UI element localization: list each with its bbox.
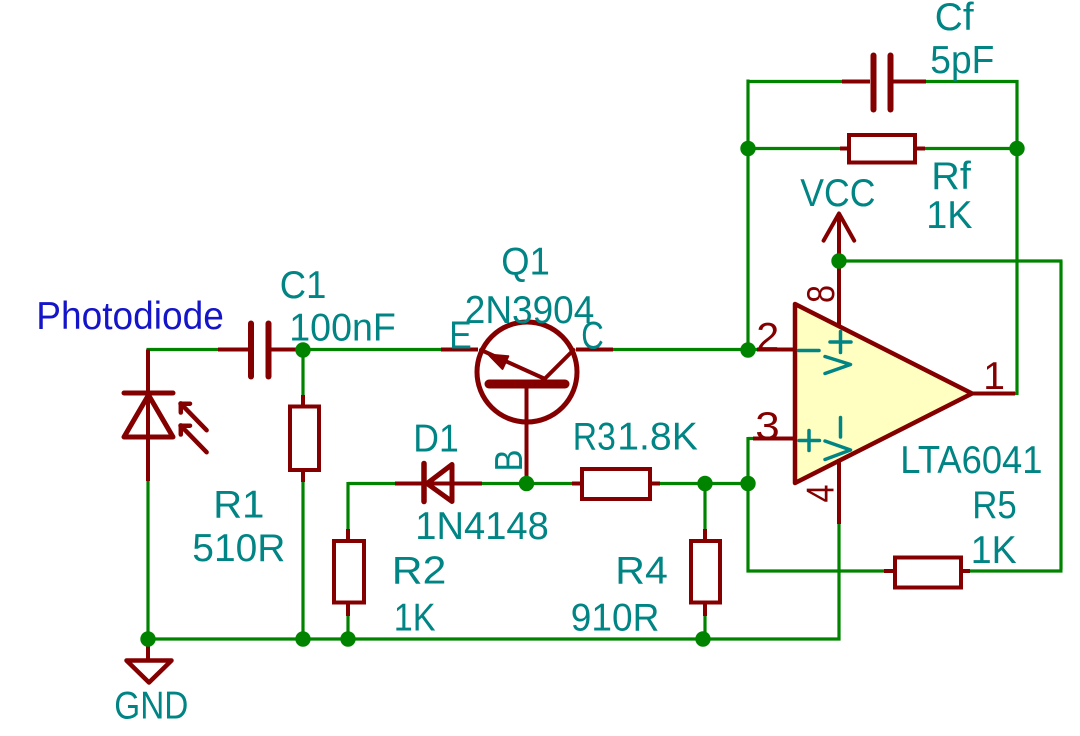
capacitor Cf left pin [842,80,870,84]
svg-text:4: 4 [799,485,842,503]
ground symbol [146,639,150,661]
resistor R2 body [334,541,364,603]
resistor R5 body [895,558,961,588]
op-amp V- minus mark [839,418,843,438]
transistor Q1 base pin [525,384,529,484]
svg-text:VCC: VCC [800,172,875,215]
svg-text:3: 3 [755,405,780,448]
wire op-amp pin4 to ground rail [837,524,840,641]
op-amp pin 4 stub [837,459,841,524]
capacitor Cf right pin [894,80,927,84]
svg-text:LTA6041: LTA6041 [900,439,1042,482]
wire pin3 node vertical [746,437,749,573]
op-amp pin 3 stub [753,437,795,441]
wire Rf row left [748,147,842,150]
junction at R4 top [697,476,712,491]
svg-text:R3: R3 [573,415,616,458]
resistor Rf right pin [914,147,925,151]
wire R3 to pin3 node [659,482,750,485]
wire Rf row right [924,147,1017,150]
svg-text:R2: R2 [392,549,447,592]
junction at feedback Rf left [740,141,755,156]
resistor R2 bottom pin [346,602,350,616]
op-amp V+ plus mark [830,340,851,344]
resistor R1 bottom pin [301,470,305,482]
diode D1 cathode bar [421,464,427,502]
op-amp pin 2 stub [757,348,795,352]
svg-text:1K: 1K [394,596,436,639]
op-amp pin 1 stub [969,392,1015,396]
svg-text:100nF: 100nF [289,306,396,349]
capacitor Cf plates [871,56,877,110]
wire R1 bottom to ground rail [301,481,304,640]
VCC power symbol [837,214,841,261]
svg-text:C1: C1 [280,264,327,307]
resistor R3 right pin [649,482,660,486]
op-amp U1 body [795,304,972,483]
wire R5 to right riser [969,569,1063,572]
wire feedback left vertical [746,80,749,352]
wire photodiode bottom to ground rail [146,480,149,640]
resistor Rf body [849,135,915,163]
svg-text:5pF: 5pF [930,39,994,82]
wire C1 to Q1 emitter [294,348,442,351]
junction at pin2/feedback [740,342,755,357]
resistor Rf left pin [840,147,850,151]
op-amp chevron upper [825,357,851,374]
resistor R4 bottom pin [703,602,707,616]
svg-text:Q1: Q1 [501,240,550,283]
svg-text:2: 2 [756,316,779,359]
op-amp pin 8 stub [837,261,841,327]
svg-text:1: 1 [983,355,1005,398]
ground rail [147,637,841,640]
photodiode top pin [146,350,150,482]
resistor R1 body [290,407,319,471]
transistor Q1 emitter diagonal [481,350,544,379]
wire R2 bottom to rail [346,615,349,640]
junction at feedback Rf right [1009,141,1024,156]
op-amp chevron lower [825,441,851,460]
wire VCC row horizontal [839,259,1063,262]
wire output riser [1015,80,1018,395]
resistor R4 top pin [703,529,707,542]
photodiode light arrow 1 [183,405,207,430]
resistor R5 left pin [884,569,896,573]
wire R4 bottom to rail [703,615,706,640]
svg-text:510R: 510R [192,527,285,570]
junction ground rail photodiode [140,631,155,646]
wire R2 top corner [346,482,349,530]
op-amp non-inverting input plus [799,439,820,443]
diode D1 body triangle [427,465,452,502]
transistor Q1 body circle [477,322,577,422]
wire output to riser [1014,392,1019,395]
svg-text:1K: 1K [971,529,1017,572]
photodiode light arrow 2 [183,427,207,452]
wire Cf top left [747,80,843,83]
svg-text:E: E [449,314,472,357]
junction at node B [519,476,534,491]
svg-text:Photodiode: Photodiode [36,295,224,338]
junction at VCC [831,253,846,268]
junction ground rail R1 [295,631,310,646]
resistor R3 body [582,469,650,499]
junction ground rail R2 [340,631,355,646]
wire D1 to node B [481,482,574,485]
svg-text:R4: R4 [615,549,668,592]
svg-text:C: C [581,314,604,357]
wire C1 junction down to R1 [301,348,304,396]
wire node B row left segment [348,482,396,485]
capacitor C1 plates [248,324,254,377]
resistor R3 left pin [572,482,583,486]
transistor Q1 base bar [489,380,565,389]
svg-text:Rf: Rf [931,155,971,198]
junction at C1/R1 [295,342,310,357]
resistor R2 top pin [346,529,350,542]
svg-text:GND: GND [114,684,188,727]
svg-text:1.8K: 1.8K [617,415,698,458]
wire right riser R5 to VCC row [1059,261,1062,570]
junction at pin3 node [740,476,755,491]
resistor R1 top pin [301,395,305,407]
transistor Q1 collector pin [576,348,613,352]
svg-text:D1: D1 [413,417,459,460]
transistor Q1 emitter arrow [489,355,509,369]
photodiode cathode bar [124,391,173,396]
capacitor C1 right pin [272,348,299,352]
svg-text:1K: 1K [926,194,972,237]
diode D1 right pin [424,482,482,486]
photodiode body triangle [124,395,173,437]
photodiode bottom pin [146,437,150,481]
op-amp inverting input minus [799,349,820,353]
wire Cf top right [925,80,1019,83]
svg-text:Cf: Cf [935,0,974,39]
junction ground rail R4 [695,631,710,646]
svg-text:8: 8 [800,285,843,303]
wire Q1 collector to op-amp pin 2 [612,348,757,351]
transistor Q1 collector diagonal [545,350,574,379]
transistor Q1 emitter pin [441,348,478,352]
svg-text:B: B [488,450,531,472]
wire R4 top [703,482,706,530]
svg-text:1N4148: 1N4148 [415,505,549,548]
svg-text:2N3904: 2N3904 [465,289,595,332]
svg-text:R1: R1 [213,483,264,526]
svg-text:910R: 910R [571,596,660,639]
diode D1 left pin [395,482,424,486]
wire photodiode top to C1 [147,348,219,351]
capacitor C1 left pin [218,348,248,352]
resistor R5 right pin [960,569,970,573]
wire pin3 node to R5 [747,569,887,572]
svg-text:R5: R5 [972,484,1017,527]
resistor R4 body [691,541,720,603]
wire pin3 corner to pin [748,437,753,440]
